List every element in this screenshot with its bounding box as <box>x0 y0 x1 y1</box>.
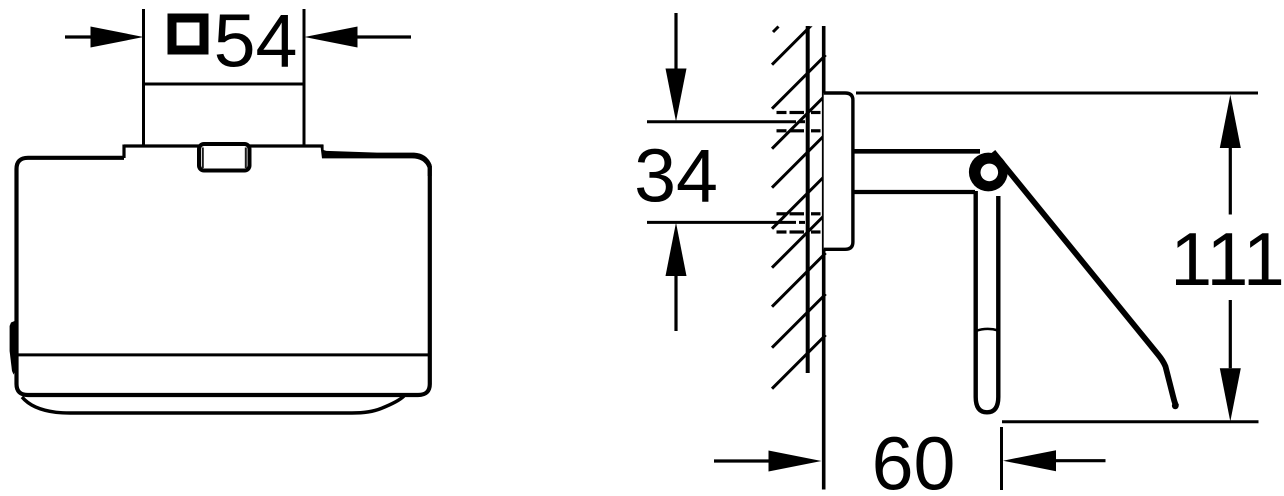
svg-text:111: 111 <box>1170 217 1284 301</box>
svg-text:34: 34 <box>634 133 718 217</box>
svg-text:60: 60 <box>872 421 956 496</box>
svg-text:54: 54 <box>214 0 298 82</box>
